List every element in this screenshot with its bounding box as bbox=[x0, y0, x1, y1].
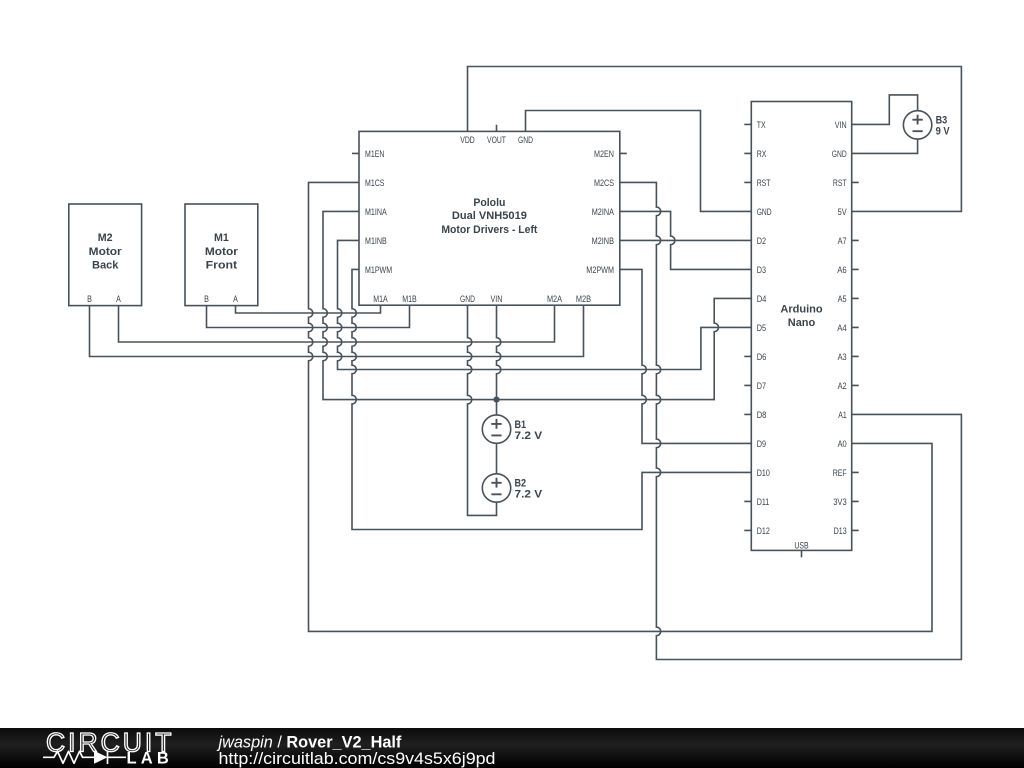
svg-text:VIN: VIN bbox=[835, 120, 847, 131]
svg-text:B: B bbox=[204, 294, 209, 305]
CircuitLab footer bar bbox=[0, 728, 1024, 768]
wire M2INB to D2 bbox=[620, 239, 752, 241]
svg-text:D2: D2 bbox=[757, 236, 766, 247]
svg-text:M1: M1 bbox=[214, 232, 229, 244]
svg-text:Arduino: Arduino bbox=[780, 304, 822, 316]
svg-text:B: B bbox=[87, 294, 92, 305]
svg-text:M1CS: M1CS bbox=[365, 178, 384, 189]
svg-text:D11: D11 bbox=[757, 497, 770, 508]
svg-text:Nano: Nano bbox=[788, 317, 816, 329]
wire Arduino VIN to B3 plus bbox=[852, 95, 918, 125]
svg-text:A7: A7 bbox=[838, 236, 847, 247]
svg-text:A2: A2 bbox=[838, 381, 847, 392]
svg-text:Motor: Motor bbox=[89, 246, 123, 258]
wire B1 minus to B2 plus bbox=[496, 443, 498, 474]
wire M2INA to D3 bbox=[620, 211, 752, 269]
svg-text:M2INA: M2INA bbox=[592, 207, 615, 218]
svg-text:D5: D5 bbox=[757, 323, 766, 334]
svg-text:TX: TX bbox=[757, 120, 766, 131]
microcontroller U2 Arduino Nano bbox=[751, 102, 851, 552]
wire M2CS to A1 bbox=[620, 182, 962, 659]
svg-text:D8: D8 bbox=[757, 410, 767, 421]
battery B3 9 V bbox=[903, 111, 950, 139]
svg-text:M2: M2 bbox=[98, 232, 113, 244]
motor M1 front bbox=[185, 204, 258, 306]
svg-text:GND: GND bbox=[832, 149, 847, 160]
svg-text:7.2 V: 7.2 V bbox=[515, 489, 543, 501]
svg-text:M2B: M2B bbox=[576, 294, 591, 305]
svg-text:D12: D12 bbox=[757, 526, 770, 537]
wire M1PWM to D10 bbox=[352, 269, 751, 529]
svg-text:D4: D4 bbox=[757, 294, 767, 305]
wire Pololu VIN to B1 plus bbox=[497, 305, 501, 415]
svg-text:GND: GND bbox=[757, 207, 772, 218]
svg-text:D9: D9 bbox=[757, 439, 766, 450]
battery B1 7.2 V bbox=[482, 415, 543, 443]
svg-text:VIN: VIN bbox=[491, 294, 503, 305]
svg-text:M1INA: M1INA bbox=[365, 207, 387, 218]
svg-text:RX: RX bbox=[757, 149, 767, 160]
wire M2PWM to D9 bbox=[620, 269, 752, 443]
svg-text:VOUT: VOUT bbox=[487, 135, 506, 146]
node VIN junction at B1 bbox=[493, 397, 499, 403]
svg-text:LAB: LAB bbox=[127, 750, 174, 768]
wire motor M2 A to M2A bbox=[119, 305, 555, 342]
wire motor M1 B to M1B bbox=[207, 305, 410, 327]
svg-text:M1INB: M1INB bbox=[365, 236, 387, 247]
svg-text:M1EN: M1EN bbox=[365, 149, 384, 160]
motor driver U1 Pololu Dual VNH5019 bbox=[359, 131, 620, 305]
svg-text:5V: 5V bbox=[838, 207, 848, 218]
svg-text:RST: RST bbox=[757, 178, 771, 189]
motor M2 back bbox=[69, 204, 142, 306]
wire B3 minus to Arduino GND bbox=[852, 139, 918, 153]
wire motor M2 B to M2B bbox=[90, 305, 584, 356]
svg-text:Pololu: Pololu bbox=[473, 197, 505, 209]
unconnected pin stubs bbox=[352, 124, 859, 557]
svg-text:M2CS: M2CS bbox=[594, 178, 614, 189]
svg-text:USB: USB bbox=[794, 540, 808, 551]
svg-text:D3: D3 bbox=[757, 265, 766, 276]
svg-text:M2EN: M2EN bbox=[594, 149, 614, 160]
svg-text:A5: A5 bbox=[838, 294, 847, 305]
svg-text:RST: RST bbox=[833, 178, 847, 189]
svg-text:Back: Back bbox=[92, 260, 119, 272]
svg-text:M2INB: M2INB bbox=[592, 236, 614, 247]
svg-text:A1: A1 bbox=[838, 410, 847, 421]
svg-text:D10: D10 bbox=[757, 468, 770, 479]
wire M1INB to D5 bbox=[338, 240, 752, 369]
svg-text:3V3: 3V3 bbox=[833, 497, 847, 508]
svg-text:M2PWM: M2PWM bbox=[586, 265, 614, 276]
svg-text:Motor Drivers - Left: Motor Drivers - Left bbox=[441, 224, 537, 236]
svg-text:D7: D7 bbox=[757, 381, 766, 392]
svg-text:A4: A4 bbox=[837, 323, 847, 334]
svg-text:M1PWM: M1PWM bbox=[365, 265, 392, 276]
svg-text:M2A: M2A bbox=[547, 294, 563, 305]
wire M1INA to D4 via VIN node bbox=[323, 211, 751, 399]
svg-text:VDD: VDD bbox=[460, 135, 475, 146]
svg-text:jwaspin / Rover_V2_Half: jwaspin / Rover_V2_Half bbox=[217, 733, 402, 751]
svg-text:GND: GND bbox=[460, 294, 475, 305]
svg-text:Front: Front bbox=[206, 260, 238, 272]
wire motor M1 A to M1A bbox=[236, 305, 381, 313]
battery B2 7.2 V bbox=[482, 474, 543, 502]
svg-text:REF: REF bbox=[833, 468, 847, 479]
svg-text:A3: A3 bbox=[838, 352, 847, 363]
svg-text:D6: D6 bbox=[757, 352, 767, 363]
svg-text:http://circuitlab.com/cs9v4s5x: http://circuitlab.com/cs9v4s5x6j9pd bbox=[219, 750, 496, 768]
svg-text:A0: A0 bbox=[838, 439, 847, 450]
wire M1CS to A0 bbox=[309, 182, 933, 631]
svg-text:9 V: 9 V bbox=[936, 126, 951, 138]
svg-text:GND: GND bbox=[518, 135, 533, 146]
svg-text:D13: D13 bbox=[834, 526, 847, 537]
svg-text:A: A bbox=[116, 294, 121, 305]
svg-text:M1B: M1B bbox=[402, 294, 417, 305]
wire VDD to 5V bbox=[468, 67, 962, 212]
svg-text:M1A: M1A bbox=[373, 294, 388, 305]
svg-text:A6: A6 bbox=[837, 265, 847, 276]
svg-text:7.2 V: 7.2 V bbox=[515, 430, 543, 442]
svg-text:Dual VNH5019: Dual VNH5019 bbox=[452, 210, 527, 222]
svg-text:Motor: Motor bbox=[205, 246, 239, 258]
wire Pololu GND to Arduino GND bbox=[526, 111, 752, 212]
wire Pololu GND pin to B2 minus bbox=[468, 305, 497, 515]
svg-text:A: A bbox=[233, 294, 238, 305]
